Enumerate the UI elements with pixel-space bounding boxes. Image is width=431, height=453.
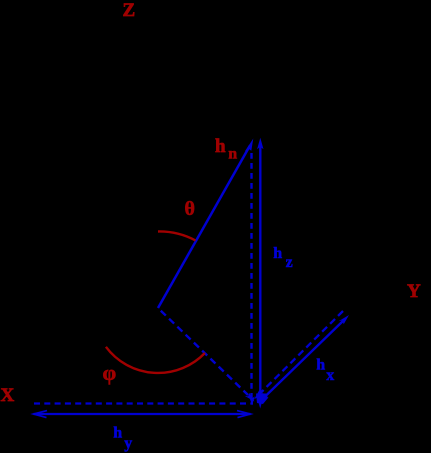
svg-text:h: h bbox=[316, 357, 325, 374]
svg-text:y: y bbox=[124, 435, 132, 452]
component h_x (solid diagonal, arrows both ends) bbox=[259, 315, 350, 403]
vector h_n (solid, arrow at top) bbox=[158, 139, 253, 309]
svg-text:φ: φ bbox=[103, 360, 117, 385]
vertical dashed projection line bbox=[249, 153, 255, 406]
svg-text:h: h bbox=[273, 245, 282, 262]
svg-text:X: X bbox=[1, 385, 15, 406]
angle theta arc bbox=[158, 231, 196, 240]
svg-text:θ: θ bbox=[185, 198, 195, 220]
X axis (dashed) bbox=[34, 402, 253, 404]
svg-text:h: h bbox=[113, 425, 122, 442]
svg-text:n: n bbox=[228, 146, 237, 163]
angle phi arc bbox=[106, 347, 205, 373]
svg-text:h: h bbox=[215, 136, 226, 157]
svg-text:Y: Y bbox=[407, 281, 421, 302]
origin junction cluster bbox=[256, 394, 268, 405]
svg-text:x: x bbox=[326, 367, 334, 384]
svg-text:z: z bbox=[286, 254, 293, 271]
component h_y (solid horizontal, open V arrows both ends) bbox=[34, 411, 251, 418]
component h_z (solid vertical, arrows both ends) bbox=[257, 138, 264, 409]
svg-text:Z: Z bbox=[123, 0, 136, 21]
Y axis direction (dashed diagonal) bbox=[254, 311, 343, 400]
dashed projection from bend point to origin bbox=[161, 311, 255, 402]
